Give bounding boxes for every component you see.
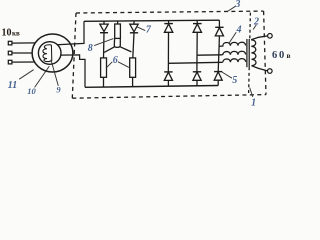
svg-text:4: 4	[236, 24, 242, 35]
svg-text:2: 2	[253, 17, 259, 28]
svg-text:в: в	[287, 51, 291, 60]
svg-text:9: 9	[56, 85, 61, 95]
svg-text:5: 5	[232, 75, 237, 86]
svg-text:60: 60	[272, 50, 286, 61]
svg-text:3: 3	[234, 0, 240, 10]
svg-text:10: 10	[2, 27, 12, 38]
svg-text:11: 11	[8, 80, 17, 91]
svg-text:кв: кв	[12, 29, 20, 37]
svg-text:7: 7	[146, 24, 152, 35]
svg-text:1: 1	[251, 98, 256, 109]
svg-text:10: 10	[27, 86, 36, 96]
svg-text:6: 6	[113, 55, 118, 66]
svg-text:8: 8	[88, 43, 93, 54]
